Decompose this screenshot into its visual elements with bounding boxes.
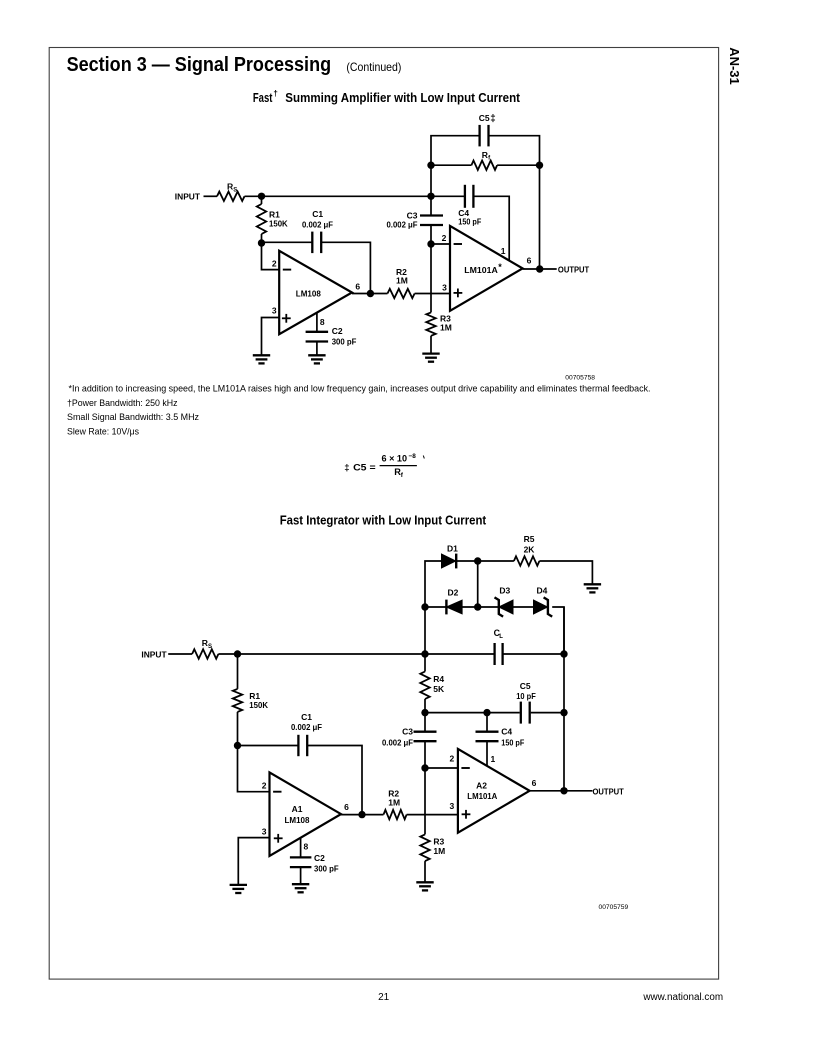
svg-text:150K: 150K [269,218,288,228]
wire R3 to ground 2 [424,861,426,882]
capacitor C4 circuit 1 [458,185,481,227]
svg-text:†Power Bandwidth: 250 kHz: †Power Bandwidth: 250 kHz [67,397,178,408]
svg-text:LM101A: LM101A [467,791,497,801]
svg-text:‡: ‡ [490,113,495,124]
wire D2 to D3 [462,606,498,608]
heading continued [346,60,401,74]
capacitor C3 circuit 2 [382,713,437,768]
op-amp A2 LM101A [458,749,530,833]
svg-text:Fast: Fast [253,91,273,105]
capacitor C2 circuit 2 [290,853,339,873]
junction summing node [427,193,434,200]
ground at U1 pin 3 [253,355,270,363]
diode D4 zener [534,585,553,616]
wire node to pin 2 A1 [238,746,270,792]
resistor R5 [514,534,540,566]
node OUTPUT circuit 2 [593,786,625,796]
svg-text:2: 2 [442,233,447,243]
junction rail/diode node [421,650,428,657]
svg-text:5K: 5K [433,684,445,694]
footnote line 2 [67,397,178,408]
resistor RS circuit 1 [217,182,245,201]
svg-text:2: 2 [449,753,454,763]
ground at A1 pin 3 [230,885,247,893]
wire D4 to output branch [552,607,564,654]
section heading [67,54,332,76]
wire input lead 1 [204,195,218,197]
svg-text:150K: 150K [249,700,268,710]
svg-text:R5: R5 [524,534,535,544]
formula C5 [344,453,424,479]
plus input U1 [282,314,291,323]
wire R4 node to C5 [425,712,520,714]
svg-text:A1: A1 [292,804,303,814]
svg-text:−8: −8 [409,453,417,460]
wire pin 8 A1 [300,838,302,857]
title circuit 2 [280,513,487,527]
capacitor C1 circuit 1 [302,209,333,253]
node OUTPUT circuit 1 [558,265,590,275]
wire node to C1 2 [238,745,299,747]
op-amp U2 LM101A [450,226,523,311]
wire feedback vertical left [430,165,432,196]
wire C1 to output node [321,242,370,293]
wire output branch vertical [539,165,541,269]
node INPUT circuit 1 [175,192,201,202]
svg-text:LM108: LM108 [285,815,310,825]
diode D2 [446,587,462,614]
svg-text:6: 6 [532,778,537,788]
wire R5 to ground [539,561,592,584]
svg-text:C3: C3 [402,726,413,736]
wire rail to R4 [424,654,426,672]
wire input rail 2 [238,653,426,655]
pin 6 label U2 [527,256,532,266]
wire node to C1 [262,241,313,243]
wire R3 to ground [430,336,432,353]
svg-text:Fast Integrator with Low Input: Fast Integrator with Low Input Current [280,513,487,527]
node INPUT circuit 2 [141,649,167,659]
capacitor C4 circuit 2 [476,713,525,766]
ground at R3 [422,354,439,362]
wire A2 output [530,790,593,792]
svg-text:6: 6 [527,256,532,266]
callout 00705759 [599,904,629,911]
svg-text:*In addition to increasing spe: *In addition to increasing speed, the LM… [69,383,651,394]
capacitor C2 circuit 1 [306,326,357,346]
svg-text:150 pF: 150 pF [501,737,524,747]
diode D1 [442,543,459,568]
ground at R5 [584,584,601,592]
svg-text:3: 3 [262,827,267,837]
wire rail to C4 [431,195,465,197]
wire C5 loop top [431,136,480,166]
wire C2 to ground [316,342,318,355]
wire C4 to pin 1 [473,196,509,261]
svg-text:21: 21 [378,992,390,1003]
pin 2 label U2 [442,233,447,243]
svg-text:C5 =: C5 = [353,463,376,473]
junction R1/C1 node 2 [234,742,241,749]
svg-text:3: 3 [442,283,447,293]
svg-text:Summing Amplifier with Low Inp: Summing Amplifier with Low Input Current [285,91,520,105]
junction CL right node [560,650,567,657]
wire pin 3 U1 to ground [262,318,280,355]
page number [378,992,390,1003]
resistor R4 [420,672,445,713]
wire input lead 2 [168,653,192,655]
pin 2 label A2 [449,753,454,763]
wire C5 to output branch 2 [531,712,564,714]
diode D3 zener [495,585,514,616]
svg-text:0.002 μF: 0.002 μF [302,220,333,230]
junction R4/C3 node [421,709,428,716]
wire C3 to pin 2 node [430,225,432,244]
resistor Rf [431,150,540,170]
svg-text:INPUT: INPUT [175,192,201,202]
svg-text:C4: C4 [501,726,512,736]
svg-text:3: 3 [449,801,454,811]
svg-text:Slew Rate: 10V/μs: Slew Rate: 10V/μs [67,425,139,436]
svg-text:R4: R4 [433,674,444,684]
svg-text:0.002 μF: 0.002 μF [291,722,322,732]
svg-text:†: † [273,89,277,98]
svg-text:2: 2 [262,781,267,791]
svg-text:8: 8 [304,842,309,852]
svg-text:LM108: LM108 [296,289,321,299]
resistor R2 circuit 2 [384,788,407,819]
sidebar label AN-31 [727,47,742,85]
junction diode row left [421,603,428,610]
capacitor C3 circuit 1 [387,210,444,229]
wire pin 2 U2 [431,243,450,245]
junction D1/R5 node [474,557,481,564]
footnote line 1 [69,383,651,394]
ground at C2 [308,355,325,363]
junction output node 2 [560,787,567,794]
ground at R3 circuit 2 [416,882,433,890]
svg-text:1M: 1M [388,797,400,807]
junction Rf left [427,162,434,169]
wire pin 3 A1 to ground [238,838,269,885]
svg-text:INPUT: INPUT [141,649,167,659]
capacitor C5 circuit 2 [516,681,536,723]
svg-text:10 pF: 10 pF [516,691,536,701]
svg-text:1M: 1M [433,846,445,856]
svg-text:*: * [498,262,502,272]
capacitor C1 circuit 2 [291,712,322,756]
pin 6 label U1 [355,282,360,292]
op-amp A1 LM108 [270,772,342,856]
wire R2 to pin 3 A2 [407,814,458,816]
plus input U2 [454,289,463,298]
svg-text:C2: C2 [314,853,325,863]
pin 6 label A2 [532,778,537,788]
pin 3 label U2 [442,283,447,293]
svg-text:6 × 10: 6 × 10 [382,453,408,463]
svg-text:OUTPUT: OUTPUT [593,786,625,796]
wire to D2 [425,606,446,608]
pin 1 label A2 [491,754,496,764]
wire R2 to pin 3 U2 [415,293,450,295]
pin 3 label A2 [449,801,454,811]
wire node to R3 2 [424,768,426,834]
minus input U2 [454,243,462,245]
resistor R2 circuit 1 [388,267,415,298]
svg-text:2: 2 [272,258,277,268]
wire RS to junction 2 [218,653,237,655]
wire diode rail left vertical [425,561,442,654]
wire summing rail [262,195,432,197]
svg-text:C2: C2 [332,326,343,336]
wire U2 output [523,268,557,270]
svg-text:D2: D2 [447,587,458,597]
junction input node 2 [234,650,241,657]
svg-text:300 pF: 300 pF [332,336,357,346]
footnote line 3 [67,411,199,422]
svg-text:2K: 2K [524,544,536,554]
op-amp U1 LM108 [279,251,352,334]
wire C1 to output node 2 [307,746,362,815]
pin 3 label U1 [272,305,277,315]
svg-text:AN-31: AN-31 [727,47,742,85]
svg-text:D4: D4 [536,585,547,595]
svg-text:150 pF: 150 pF [458,217,481,227]
svg-text:OUTPUT: OUTPUT [558,265,590,275]
svg-text:C1: C1 [312,209,323,219]
plus input A1 [274,834,283,843]
wire pin 2 A2 [425,767,458,769]
minus input A1 [273,791,281,793]
svg-text:1: 1 [491,754,496,764]
wire C2 to ground 2 [300,867,302,883]
wire U1 output [352,293,388,295]
resistor R3 circuit 2 [420,834,445,861]
svg-text:L: L [499,634,503,640]
svg-text:LM101A: LM101A [464,265,498,275]
junction A1 output node [358,811,365,818]
ground at C2 circuit 2 [292,884,309,892]
svg-text:S: S [208,644,212,650]
wire node to R3 [430,244,432,312]
capacitor CL [494,628,504,665]
junction R1/C1/pin2 node [258,239,265,246]
callout 00705758 [565,374,595,381]
junction C4 top node [483,709,490,716]
svg-text:3: 3 [272,305,277,315]
pin 3 label A1 [262,827,267,837]
svg-text:www.national.com: www.national.com [642,992,723,1003]
wire RS to junction [245,195,262,197]
svg-text:S: S [233,187,237,193]
junction output node 1 [536,265,543,272]
svg-text:6: 6 [344,802,349,812]
svg-text:D1: D1 [447,543,458,553]
svg-text:300 pF: 300 pF [314,863,339,873]
wire D1 to R5 [456,560,514,562]
svg-text:R3: R3 [433,836,444,846]
footer url [642,992,723,1003]
svg-text:1M: 1M [396,276,408,286]
resistor R3 circuit 1 [426,312,452,335]
pin 2 label U1 [272,258,277,268]
svg-text:C1: C1 [301,712,312,722]
wire D3 to D4 [513,606,534,608]
wire CL to output branch [503,653,564,655]
svg-text:0.002 μF: 0.002 μF [382,737,413,747]
footnote line 4 [67,425,139,436]
junction D2/D3 node [474,603,481,610]
svg-text:0.002 μF: 0.002 μF [387,220,418,230]
pin 8 label A1 [304,842,309,852]
svg-text:D3: D3 [499,585,510,595]
wire C5 to output branch [489,136,540,166]
wire A1 output [341,814,384,816]
wire node to pin 2 U1 [262,243,280,270]
pin 1 label U1 [501,246,506,256]
junction pin 2 node A2 [421,764,428,771]
pin 8 label U1 [320,317,325,327]
svg-text:Small Signal Bandwidth: 3.5 MH: Small Signal Bandwidth: 3.5 MHz [67,411,199,422]
svg-text:Section 3 — Signal Processing: Section 3 — Signal Processing [67,54,332,76]
svg-text:00705759: 00705759 [599,904,629,911]
junction U1 output node [367,290,374,297]
junction Rf right [536,162,543,169]
pin 2 label A1 [262,781,267,791]
plus input A2 [462,810,471,819]
svg-text:C5: C5 [520,681,531,691]
resistor R1 circuit 2 [233,654,269,746]
wire D1 junction to D2 row [477,561,479,607]
svg-text:8: 8 [320,317,325,327]
junction input node 1 [258,193,265,200]
resistor RS circuit 2 [192,638,218,659]
wire pin 8 U1 [316,313,318,331]
pin 6 label A1 [344,802,349,812]
wire output branch vertical 2 [563,607,565,791]
svg-text:00705758: 00705758 [565,374,595,381]
svg-text:1: 1 [501,246,506,256]
minus input A2 [461,767,469,769]
svg-text:1M: 1M [440,323,452,333]
capacitor C5 circuit 1 [479,113,496,146]
svg-text:6: 6 [355,282,360,292]
junction C5 right node [560,709,567,716]
wire rail to C3 [430,196,432,215]
title circuit 1 [253,89,521,105]
svg-text:A2: A2 [476,781,487,791]
svg-text:(Continued): (Continued) [346,60,401,74]
wire rail to CL [425,653,495,655]
svg-text:‡: ‡ [344,463,349,474]
minus input U1 [283,269,291,271]
junction pin 2 node U2 [427,240,434,247]
resistor R1 circuit 1 [257,196,289,243]
svg-text:C5: C5 [479,113,490,123]
